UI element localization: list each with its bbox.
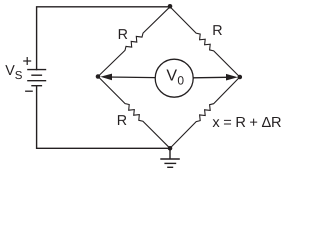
- wire bottom (VS- to bottom node): [37, 86, 170, 149]
- svg-text:x = R + ΔR: x = R + ΔR: [212, 115, 281, 131]
- voltmeter V0 circle: [155, 59, 193, 97]
- wire meter to left node: [104, 76, 155, 79]
- resistor R top-left: [98, 7, 170, 77]
- svg-text:0: 0: [177, 73, 184, 87]
- svg-text:R: R: [212, 23, 222, 39]
- svg-text:R: R: [118, 27, 128, 43]
- svg-text:R: R: [117, 113, 127, 129]
- resistor x bottom-right: [170, 77, 240, 148]
- node left: [96, 74, 101, 79]
- ground: [160, 148, 180, 167]
- arrowhead at right node: [226, 74, 238, 81]
- node right: [238, 75, 243, 80]
- node bottom: [168, 146, 173, 151]
- wire top (VS+ to top node): [37, 7, 170, 70]
- svg-text:V: V: [166, 67, 177, 84]
- arrowhead at left node: [100, 74, 112, 81]
- svg-text:VS: VS: [5, 63, 23, 82]
- node top: [168, 4, 173, 9]
- resistor R bottom-left: [98, 77, 170, 149]
- wire meter to right node: [193, 76, 234, 79]
- plus sign of VS: [23, 57, 31, 65]
- resistor R top-right: [170, 7, 240, 77]
- minus sign of VS: [25, 90, 33, 92]
- voltage source VS battery plates: [27, 70, 46, 86]
